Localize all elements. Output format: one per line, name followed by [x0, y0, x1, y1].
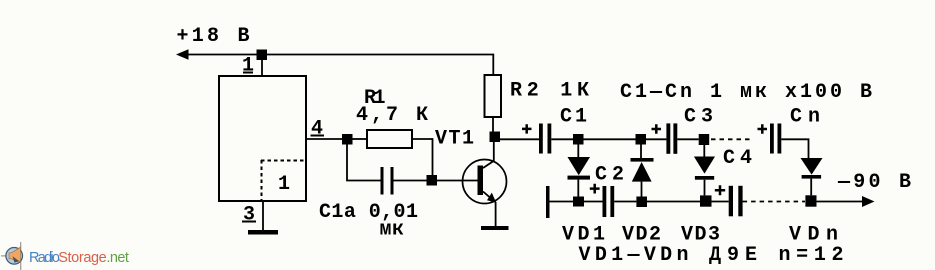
wire VD2 top [640, 145, 642, 159]
wire node3b to C4 [712, 201, 729, 203]
svg-text:Д9Е: Д9Е [709, 244, 757, 267]
logo crosshair [1, 242, 21, 270]
plus C2 [590, 184, 600, 194]
wire pin1 [261, 60, 263, 76]
node A bottom [573, 197, 584, 207]
svg-text:3: 3 [243, 204, 255, 227]
diode VD1 [568, 157, 591, 175]
capacitor C4 plates [729, 186, 733, 217]
resistor R1 [367, 130, 412, 148]
wire collector vertical [483, 142, 494, 168]
ground pin3 [248, 230, 278, 235]
wire node1b to C2 [584, 201, 603, 203]
node C top [699, 134, 710, 145]
diode VD3 [694, 157, 715, 174]
plus C4 [715, 185, 725, 195]
wire C3 to node3 [677, 138, 698, 140]
arrow output -90V [862, 196, 875, 207]
node VDn bottom [805, 195, 816, 206]
plus C1 [522, 124, 532, 133]
wire node2 to C3 [646, 138, 666, 140]
wire C1a to node [394, 180, 427, 182]
capacitor C1a plates [381, 167, 384, 195]
svg-text:4,7 К: 4,7 К [356, 104, 428, 127]
wire dashed top rail [711, 138, 753, 140]
wire emitter vertical [483, 192, 496, 227]
stub terminal bottom rail [546, 186, 550, 218]
svg-text:C1—Cn 1 мк х100 В: C1—Cn 1 мк х100 В [620, 81, 872, 104]
svg-text:VD1—VDn: VD1—VDn [579, 244, 689, 267]
node pin4 [342, 134, 353, 145]
node C1a junction [427, 175, 438, 186]
wire +18V rail [187, 55, 493, 76]
svg-text:RadioStorage.net: RadioStorage.net [29, 250, 129, 266]
plus Cn [758, 124, 768, 133]
diode VD2 [631, 158, 654, 162]
node B top [636, 134, 647, 145]
wire VD2 bottom [641, 182, 643, 197]
node A top [573, 134, 584, 145]
wire node1 to node2 top [584, 138, 636, 140]
transistor VT1 [463, 160, 507, 204]
wire base [437, 180, 478, 182]
svg-text:R2 1К: R2 1К [510, 80, 589, 103]
wire VD1 anode [577, 145, 579, 158]
capacitor C1 plates [539, 124, 543, 154]
svg-text:VT1: VT1 [435, 128, 474, 151]
wire node4 to R1 [353, 138, 368, 140]
plus C3 [652, 124, 662, 133]
resistor R2 [485, 75, 502, 117]
wire Cn to VDn corner [781, 139, 808, 158]
svg-text:мк: мк [380, 219, 405, 242]
ground emitter [481, 226, 509, 230]
wire R1 to C1a node [412, 139, 433, 175]
arrow +18V [176, 49, 189, 59]
IC box U1 [219, 76, 306, 201]
logo orange horn [9, 247, 20, 262]
wire node2b to node3b [647, 201, 700, 203]
wire output [817, 201, 864, 203]
wire pin3 [262, 201, 264, 230]
wire C2 to node2b [614, 201, 636, 203]
wire R2 top [492, 117, 494, 132]
node C bottom [700, 195, 712, 206]
svg-text:4: 4 [311, 118, 323, 141]
capacitor Cn plates [770, 124, 774, 154]
wire VD3 anode [703, 145, 705, 157]
wire pin4 [306, 138, 342, 140]
node collector [490, 132, 501, 143]
wire node4 down to C1a [347, 145, 381, 181]
logo transistor circle [6, 248, 23, 265]
node B bottom [636, 197, 647, 208]
wire collector node to C1 [500, 138, 539, 140]
dashed inner box [261, 160, 305, 200]
node rail junction [257, 50, 268, 61]
capacitor C2 plates [603, 186, 607, 217]
svg-text:1: 1 [278, 173, 290, 196]
wire C1 to node1 [551, 138, 573, 140]
svg-text:+18 В: +18 В [177, 25, 250, 48]
wire bottom rail left [550, 201, 574, 203]
diode VDn [801, 158, 823, 175]
svg-text:—90 В: —90 В [837, 171, 911, 194]
svg-text:1: 1 [242, 55, 254, 78]
wire VD3 cathode [704, 180, 706, 196]
capacitor C3 plates [666, 123, 670, 153]
logo arrow [13, 256, 20, 262]
wire dashed bottom rail [743, 201, 805, 203]
wire VDn cathode [810, 179, 812, 196]
wire VD1 cathode [577, 180, 579, 197]
